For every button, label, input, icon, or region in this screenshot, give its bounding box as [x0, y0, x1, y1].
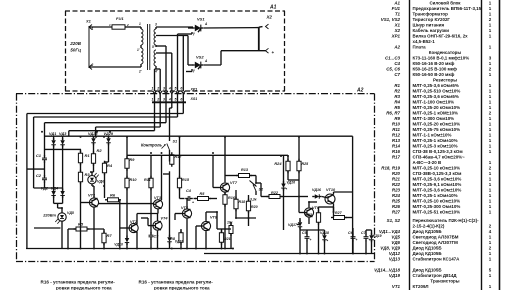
- svg-text:R22: R22: [271, 191, 279, 195]
- svg-text:FU1: FU1: [392, 6, 401, 11]
- svg-text:Шнур питания: Шнур питания: [413, 22, 445, 27]
- svg-text:3: 3: [163, 87, 165, 91]
- svg-text:R1: R1: [394, 83, 400, 88]
- svg-text:МЛТ-0,25-1 кОм±10%: МЛТ-0,25-1 кОм±10%: [413, 193, 458, 198]
- svg-text:R27: R27: [335, 211, 343, 215]
- svg-text:VД10: VД10: [114, 243, 123, 247]
- svg-text:Диод КД105Б: Диод КД105Б: [413, 268, 443, 273]
- svg-text:СП3-38В-0,125-3,3 кОм: СП3-38В-0,125-3,3 кОм: [413, 171, 462, 176]
- svg-text:R20: R20: [392, 171, 401, 176]
- svg-text:XР1: XР1: [391, 33, 401, 38]
- svg-text:50Гц: 50Гц: [70, 48, 81, 53]
- svg-text:R16 - установка предела регули: R16 - установка предела регули-: [41, 280, 116, 285]
- svg-text:R6, R7: R6, R7: [386, 110, 400, 115]
- svg-text:VT4: VT4: [161, 217, 169, 221]
- svg-text:МЛТ-0,25-3,6 кОм±5%: МЛТ-0,25-3,6 кОм±5%: [413, 94, 459, 99]
- svg-text:К50-16-25 В-100 мкф: К50-16-25 В-100 мкф: [413, 65, 457, 71]
- svg-text:1: 1: [139, 22, 141, 26]
- svg-text:Кабель нагрузки: Кабель нагрузки: [413, 27, 450, 33]
- svg-text:S1: S1: [173, 140, 178, 144]
- svg-text:X2: X2: [266, 15, 273, 20]
- svg-text:К50-16-16 В-20 мкф: К50-16-16 В-20 мкф: [413, 60, 455, 66]
- svg-text:5: 5: [175, 97, 177, 101]
- svg-text:R2: R2: [394, 88, 400, 93]
- svg-text:2: 2: [126, 23, 129, 27]
- svg-text:220В: 220В: [69, 41, 82, 46]
- svg-text:2-15-2-4(1)-К(2): 2-15-2-4(1)-К(2): [413, 224, 445, 229]
- svg-text:МЛТ-0,25-3,6 кОм±5%: МЛТ-0,25-3,6 кОм±5%: [413, 83, 459, 88]
- svg-text:R27: R27: [392, 209, 401, 214]
- svg-text:3: 3: [163, 97, 165, 101]
- svg-text:VД1: VД1: [49, 132, 56, 136]
- svg-text:VД13: VД13: [389, 257, 401, 262]
- svg-text:МЛТ-0,25-75 кОм±10%: МЛТ-0,25-75 кОм±10%: [413, 127, 461, 132]
- svg-text:МЛТ-1-100 Ом±10%: МЛТ-1-100 Ом±10%: [413, 99, 455, 104]
- svg-text:КТ209Л: КТ209Л: [413, 284, 429, 289]
- svg-text:R26: R26: [392, 204, 401, 209]
- svg-text:МЛТ-1-1 кОм±10%: МЛТ-1-1 кОм±10%: [413, 132, 452, 137]
- svg-text:МЛТ-0,25-510 Ом±10%: МЛТ-0,25-510 Ом±10%: [413, 88, 461, 93]
- svg-text:6: 6: [180, 87, 182, 91]
- svg-text:R25: R25: [392, 198, 401, 203]
- svg-text:A1: A1: [269, 5, 277, 11]
- svg-text:R17: R17: [392, 154, 401, 159]
- svg-text:X2: X2: [394, 28, 401, 33]
- svg-text:2': 2': [138, 70, 142, 74]
- svg-text:A1: A1: [393, 0, 400, 5]
- svg-text:Светодиод АЛ307ГМ: Светодиод АЛ307ГМ: [413, 240, 459, 245]
- svg-text:R8: R8: [170, 236, 176, 241]
- svg-text:R13: R13: [392, 138, 401, 143]
- svg-text:СП3-46ав-4,7 кОм±20%~: СП3-46ав-4,7 кОм±20%~: [413, 154, 466, 159]
- svg-text:R4: R4: [107, 163, 113, 168]
- svg-text:R14: R14: [392, 143, 401, 148]
- svg-text:С1...С3: С1...С3: [385, 55, 401, 60]
- svg-text:R10: R10: [130, 178, 138, 182]
- svg-text:R10: R10: [392, 121, 401, 126]
- svg-text:T1: T1: [395, 11, 401, 16]
- svg-text:R18: R18: [239, 200, 246, 204]
- svg-text:К50-16-50 В-20 мкф: К50-16-50 В-20 мкф: [413, 71, 455, 77]
- svg-text:Диод КД105Б: Диод КД105Б: [413, 246, 443, 251]
- svg-text:Контроль: Контроль: [141, 143, 163, 148]
- svg-text:С4: С4: [394, 61, 400, 66]
- svg-text:VД5: VД5: [67, 211, 74, 215]
- svg-text:R17: R17: [175, 155, 183, 159]
- svg-text:R23: R23: [392, 187, 401, 192]
- svg-text:ровки предельного тока: ровки предельного тока: [154, 286, 210, 290]
- svg-text:Диод КД105Б: Диод КД105Б: [413, 251, 443, 256]
- svg-text:R20: R20: [251, 205, 258, 209]
- svg-text:Резисторы: Резисторы: [433, 77, 457, 82]
- svg-text:C1: C1: [36, 153, 42, 158]
- svg-text:МЛТ-0,25-3,6 кОм±10%: МЛТ-0,25-3,6 кОм±10%: [413, 176, 462, 181]
- svg-text:X1: X1: [85, 19, 92, 24]
- svg-text:VД4: VД4: [51, 187, 59, 191]
- svg-text:X1: X1: [394, 22, 401, 27]
- svg-text:Светодиод АЛ307БМ: Светодиод АЛ307БМ: [413, 235, 459, 240]
- svg-text:МЛТ-0,25-1 кОм±10%: МЛТ-0,25-1 кОм±10%: [413, 138, 458, 143]
- svg-text:VД17: VД17: [288, 223, 298, 227]
- svg-text:S1, S2: S1, S2: [387, 218, 401, 223]
- svg-text:A2: A2: [393, 44, 400, 49]
- svg-text:Предохранитель ВП56-11Т-3,15: Предохранитель ВП56-11Т-3,15: [413, 6, 482, 11]
- svg-text:ХР1: ХР1: [190, 88, 198, 92]
- svg-text:R23: R23: [305, 212, 313, 217]
- svg-text:С7: С7: [394, 72, 400, 77]
- svg-text:R16: R16: [392, 149, 401, 154]
- svg-text:ровки предельного тока: ровки предельного тока: [56, 286, 112, 290]
- svg-text:МЛТ-0,25-10 кОм±10%: МЛТ-0,25-10 кОм±10%: [413, 198, 461, 203]
- svg-text:VД29: VД29: [104, 132, 114, 136]
- svg-text:МЛТ-0,25-1 кОМ±10%: МЛТ-0,25-1 кОМ±10%: [413, 110, 459, 115]
- svg-text:МЛТ-0,25-3,6 кОм±10%: МЛТ-0,25-3,6 кОм±10%: [413, 187, 462, 192]
- svg-text:К73-11-160 В-0,1 мкф±10%: К73-11-160 В-0,1 мкф±10%: [413, 54, 470, 60]
- svg-text:Переключатель П2К-Н(1)-С(2)-: Переключатель П2К-Н(1)-С(2)-: [413, 218, 480, 223]
- svg-text:Вилка ОНП-КГ-29-6/16, 2х: Вилка ОНП-КГ-29-6/16, 2х: [413, 33, 469, 38]
- svg-text:Транзисторы: Транзисторы: [430, 279, 459, 284]
- svg-text:VД6: VД6: [391, 240, 400, 245]
- svg-text:R22: R22: [392, 182, 401, 187]
- svg-text:Конденсаторы: Конденсаторы: [429, 50, 462, 55]
- svg-text:VS1: VS1: [197, 17, 205, 22]
- svg-text:Трансформатор: Трансформатор: [413, 10, 449, 16]
- svg-text:220Вт: 220Вт: [42, 213, 56, 218]
- svg-text:VT1: VT1: [88, 193, 96, 198]
- svg-text:VД5: VД5: [391, 235, 400, 240]
- svg-text:Стабилитрон КС147А: Стабилитрон КС147А: [413, 256, 461, 262]
- svg-text:Диод КД105Б: Диод КД105Б: [413, 229, 443, 234]
- svg-text:R4: R4: [394, 99, 400, 104]
- svg-text:4: 4: [168, 87, 171, 91]
- svg-text:1: 1: [152, 97, 154, 101]
- svg-text:+: +: [192, 201, 194, 205]
- svg-text:МЛТ-0,25-20 кОм±10%: МЛТ-0,25-20 кОм±10%: [413, 105, 461, 110]
- svg-text:6: 6: [180, 97, 182, 101]
- svg-text:ХS1: ХS1: [190, 97, 198, 101]
- svg-text:МЛТ-0,25-10 кОм±10%: МЛТ-0,25-10 кОм±10%: [413, 165, 461, 170]
- svg-text:Стабилитрон Д814Д: Стабилитрон Д814Д: [413, 272, 458, 278]
- svg-text:VД12: VД12: [389, 251, 401, 256]
- svg-text:R3: R3: [394, 94, 400, 99]
- svg-text:МЛТ-0,25-3 кОм±10%: МЛТ-0,25-3 кОм±10%: [413, 143, 458, 148]
- svg-text:R2: R2: [97, 148, 103, 153]
- svg-text:10к: 10к: [227, 221, 233, 225]
- svg-text:Тиристор КУ202Г: Тиристор КУ202Г: [413, 17, 451, 22]
- svg-text:R6: R6: [110, 193, 116, 198]
- svg-text:+: +: [272, 50, 275, 55]
- svg-text:VS1, VS2: VS1, VS2: [381, 17, 401, 22]
- svg-text:С5, С6: С5, С6: [386, 66, 400, 71]
- svg-text:R11: R11: [392, 127, 400, 132]
- svg-text:VД16: VД16: [312, 188, 322, 192]
- svg-text:R13: R13: [241, 168, 249, 172]
- svg-text:A2: A2: [356, 88, 364, 94]
- svg-text:VT1: VT1: [392, 284, 401, 289]
- svg-text:R5: R5: [394, 105, 400, 110]
- svg-text:VS2: VS2: [196, 55, 204, 60]
- svg-text:МЛТ-1-300 Ом±10%: МЛТ-1-300 Ом±10%: [413, 116, 455, 121]
- svg-text:R21: R21: [392, 176, 401, 181]
- svg-text:х4,5-В52-1: х4,5-В52-1: [413, 39, 436, 44]
- svg-text:4: 4: [168, 97, 171, 101]
- svg-text:VД8, VД9: VД8, VД9: [380, 246, 400, 251]
- svg-text:R5: R5: [78, 222, 84, 227]
- svg-text:СП3-38 В-0,125-3,3 кОм: СП3-38 В-0,125-3,3 кОм: [413, 149, 463, 154]
- svg-text:VД1...VД4: VД1...VД4: [379, 229, 400, 234]
- svg-text:R25: R25: [302, 162, 310, 166]
- svg-text:VД26: VД26: [287, 181, 296, 185]
- svg-text:R24: R24: [392, 193, 401, 198]
- svg-text:R15: R15: [182, 178, 190, 182]
- svg-text:VД19: VД19: [389, 273, 401, 278]
- svg-text:R7: R7: [107, 233, 113, 238]
- svg-text:5: 5: [175, 87, 177, 91]
- svg-text:VД2: VД2: [41, 187, 49, 191]
- svg-text:C2: C2: [36, 173, 42, 178]
- svg-text:R12: R12: [392, 132, 401, 137]
- svg-text:А-ВС—3-20 В: А-ВС—3-20 В: [413, 160, 442, 165]
- svg-text:FU1: FU1: [116, 16, 124, 21]
- svg-text:Плата: Плата: [413, 44, 427, 49]
- svg-text:МЛТ-0,25-9,1 кОм±10%: МЛТ-0,25-9,1 кОм±10%: [413, 182, 462, 187]
- svg-text:2: 2: [156, 87, 159, 91]
- svg-text:1: 1: [152, 87, 154, 91]
- svg-text:3: 3: [155, 23, 157, 27]
- svg-text:МЛТ-0,25-51 кОм±10%: МЛТ-0,25-51 кОм±10%: [413, 209, 461, 214]
- svg-text:+: +: [356, 238, 358, 242]
- svg-text:VД14...VД18: VД14...VД18: [374, 268, 400, 273]
- svg-text:R18, R19: R18, R19: [381, 165, 400, 170]
- svg-text:1': 1': [137, 48, 140, 52]
- svg-text:VT7: VT7: [230, 181, 238, 185]
- svg-text:R1: R1: [85, 153, 91, 158]
- svg-text:R9: R9: [394, 116, 400, 121]
- svg-text:R16 - установка предела регули: R16 - установка предела регули-: [139, 280, 214, 285]
- svg-text:Силовой блок: Силовой блок: [429, 0, 461, 5]
- svg-text:+: +: [310, 238, 312, 242]
- svg-text:R21: R21: [224, 237, 231, 241]
- svg-text:VД19: VД19: [373, 234, 382, 238]
- svg-text:2: 2: [156, 97, 159, 101]
- svg-text:МЛТ-0,25-300 Ом±10%: МЛТ-0,25-300 Ом±10%: [413, 204, 461, 209]
- svg-text:VД3: VД3: [59, 132, 67, 136]
- svg-text:R24: R24: [274, 161, 282, 166]
- svg-text:R11: R11: [144, 178, 151, 182]
- svg-text:5': 5': [152, 45, 155, 49]
- svg-text:МЛТ-0,25-20 кОм±10%: МЛТ-0,25-20 кОм±10%: [413, 121, 461, 126]
